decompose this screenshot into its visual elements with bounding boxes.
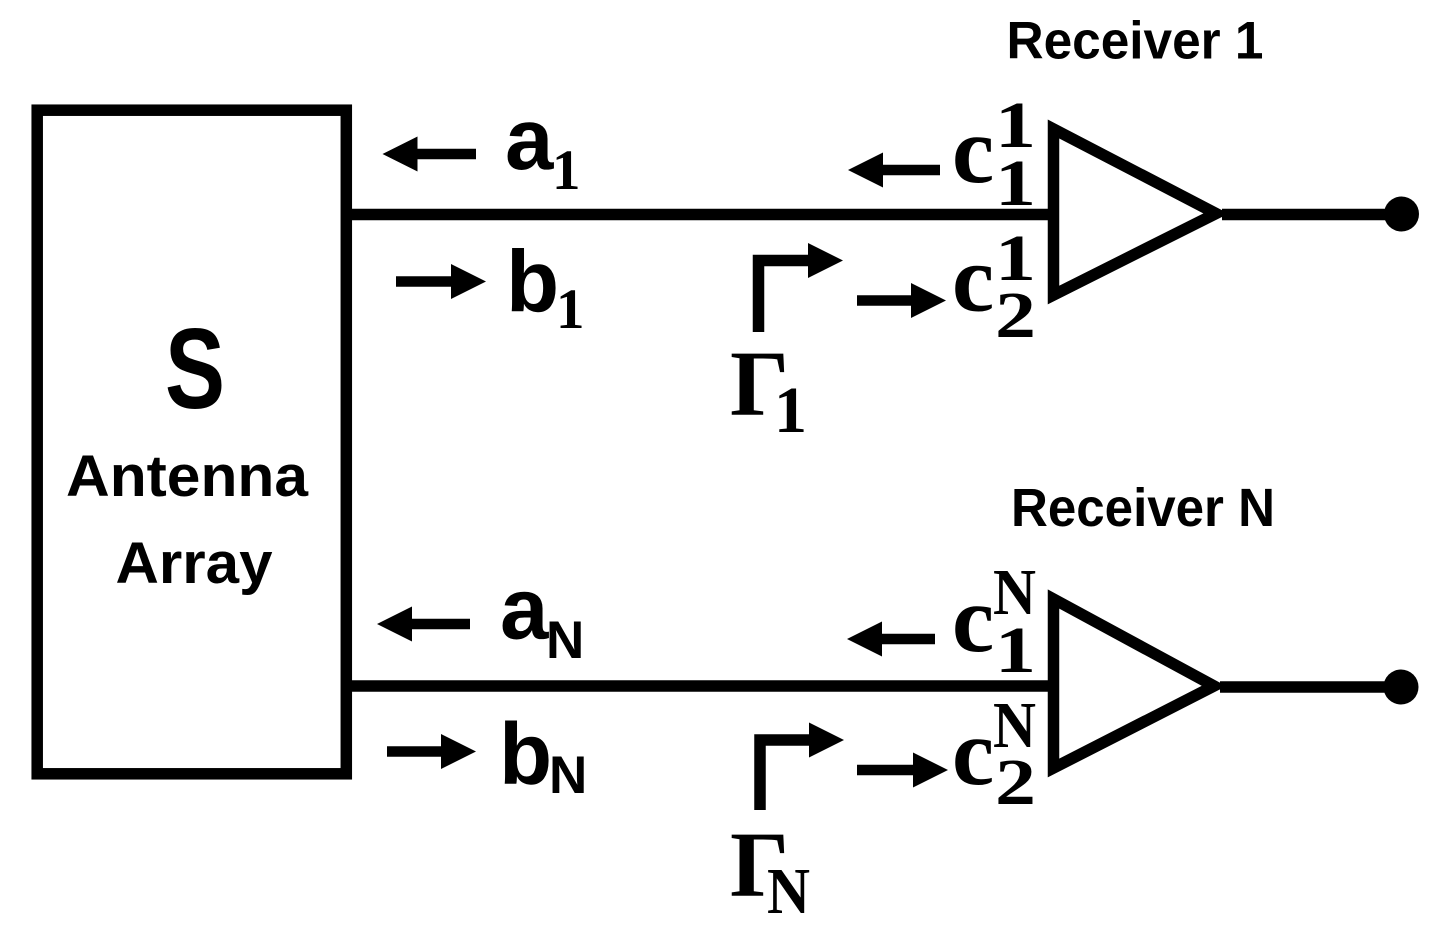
svg-text:1: 1 bbox=[995, 147, 1036, 220]
wire port 1 bbox=[346, 209, 1058, 221]
arrow aN bbox=[377, 607, 470, 642]
reflection arrow gamma1 bbox=[759, 261, 813, 333]
svg-text:a: a bbox=[505, 91, 554, 188]
antenna array box S bbox=[37, 110, 346, 774]
amplifier receiver N bbox=[1054, 599, 1215, 768]
svg-text:b: b bbox=[499, 706, 552, 803]
wire port N bbox=[346, 680, 1058, 692]
svg-text:Receiver N: Receiver N bbox=[1011, 478, 1275, 538]
svg-text:1: 1 bbox=[556, 278, 585, 341]
arrow c2_1 bbox=[857, 283, 946, 318]
svg-text:S: S bbox=[165, 306, 225, 433]
svg-text:1: 1 bbox=[995, 614, 1036, 687]
svg-text:c: c bbox=[952, 566, 994, 672]
svg-text:N: N bbox=[549, 746, 587, 805]
svg-text:2: 2 bbox=[995, 279, 1036, 352]
output wire 1 bbox=[1222, 209, 1402, 221]
svg-text:Antenna: Antenna bbox=[66, 444, 309, 509]
svg-text:c: c bbox=[952, 97, 994, 203]
output wire N bbox=[1220, 681, 1402, 693]
reflection arrow gammaN bbox=[760, 740, 813, 810]
arrow a1 bbox=[383, 137, 477, 172]
svg-text:N: N bbox=[767, 855, 810, 928]
svg-text:1: 1 bbox=[774, 374, 807, 447]
amplifier receiver 1 bbox=[1054, 129, 1217, 295]
svg-text:c: c bbox=[952, 699, 994, 805]
arrow bN bbox=[387, 734, 476, 769]
arrow b1 bbox=[396, 264, 486, 299]
svg-text:2: 2 bbox=[995, 746, 1036, 819]
svg-text:Receiver 1: Receiver 1 bbox=[1007, 12, 1264, 71]
svg-text:N: N bbox=[546, 611, 584, 670]
svg-text:Array: Array bbox=[116, 531, 273, 596]
arrow c2_N bbox=[857, 753, 948, 788]
terminal dot 1 bbox=[1384, 197, 1419, 232]
terminal dot N bbox=[1384, 670, 1419, 705]
arrow c1_1 bbox=[848, 153, 940, 188]
svg-text:a: a bbox=[500, 561, 549, 658]
svg-text:c: c bbox=[952, 226, 994, 332]
svg-text:b: b bbox=[506, 234, 559, 331]
arrow c1_N bbox=[847, 622, 935, 657]
svg-text:1: 1 bbox=[552, 139, 581, 202]
